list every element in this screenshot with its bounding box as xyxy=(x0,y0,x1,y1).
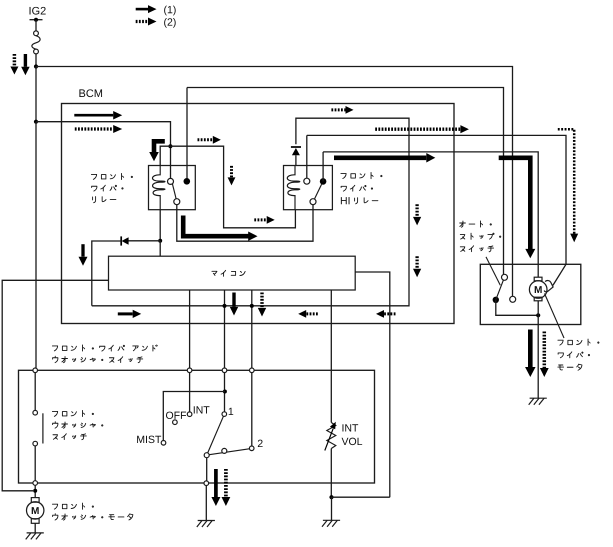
node IG2 label xyxy=(30,7,46,15)
label front wiper HI relay line2 xyxy=(341,185,372,191)
flow arrow solid down at switch ground xyxy=(214,469,218,497)
junction INT VOL ground node xyxy=(329,495,333,499)
flow arrow dashed left below microcomputer 2 xyxy=(384,312,396,315)
ground G3 xyxy=(322,520,340,527)
junction relay K1 feed node xyxy=(168,144,172,148)
wiper motor M letter xyxy=(535,286,542,293)
label front washer switch line1 xyxy=(52,410,93,416)
wire ground node to microcomputer return xyxy=(332,496,390,498)
flow arrow dashed down at switch ground xyxy=(224,469,228,497)
wire MIST branch xyxy=(163,392,225,441)
label INT VOL line2 xyxy=(342,438,363,445)
diode D2 (pointing up) xyxy=(291,146,301,148)
flow arrow thick elbow down into relay K1 xyxy=(154,141,165,152)
label front wiper HI relay line1 xyxy=(341,173,382,179)
relay K2 NO throw contact xyxy=(310,199,316,205)
flow arrow dashed elbow down right side xyxy=(558,129,574,234)
relay K1 box (front wiper relay) xyxy=(149,166,196,210)
BCM box xyxy=(62,104,455,324)
diode D1 (pointing left) xyxy=(122,237,129,245)
wire to ground G3 xyxy=(331,497,333,520)
wire microcomputer pin to switch contact 1 xyxy=(224,290,226,368)
label front washer switch line2 xyxy=(53,422,103,428)
flow arrow dashed right relay K2 coil path xyxy=(254,218,266,221)
auto-stop switch arm xyxy=(496,280,504,300)
auto-stop contact parked xyxy=(510,296,516,302)
relay K1 fixed contact xyxy=(184,178,191,185)
wiper switch arm middle contact xyxy=(222,448,227,453)
INT VOL adjust arrow xyxy=(325,429,333,451)
label auto-stop switch line3 xyxy=(460,246,493,252)
label contact 2 xyxy=(258,440,263,447)
wire INT VOL to ground node xyxy=(330,449,332,498)
junction coil/diode node xyxy=(158,239,162,243)
washer motor M1 xyxy=(31,498,39,503)
wire IG2 down to BCM feed xyxy=(35,67,37,122)
label auto-stop switch line1 xyxy=(460,221,492,227)
wire coil node to diode D1 xyxy=(128,240,160,242)
junction IG2 terminal xyxy=(34,18,38,22)
label front wiper HI relay line3 (kana) xyxy=(355,198,378,204)
flow arrow solid down below microcomputer xyxy=(232,293,235,307)
wire microcomputer pin to INT contact xyxy=(189,290,191,368)
flow arrow (1) solid down at IG2 xyxy=(24,54,27,67)
switch OFF contact xyxy=(173,420,178,425)
terminal contact2 wire xyxy=(250,368,255,373)
flow arrow dashed down right of relay K1 xyxy=(230,166,233,178)
wire washer motor to ground G1 xyxy=(34,523,36,533)
leader line wiper motor label xyxy=(545,294,565,339)
wire junction to coil top xyxy=(160,146,170,165)
wire junction to microcomputer top pin xyxy=(159,241,161,256)
wiper motor box xyxy=(480,264,581,324)
wire relay K1 common to junction xyxy=(170,146,172,178)
label washer switch line2 xyxy=(53,356,143,362)
wire relay K2 common to wiper motor (+2) xyxy=(307,135,566,264)
wire relay K1 throw to relay K2 throw xyxy=(177,205,313,242)
wire IG2 feed into relay R1 junction xyxy=(36,122,171,147)
junction washer motor node xyxy=(33,489,37,493)
relay K1 common contact xyxy=(168,178,174,184)
fuse F1 xyxy=(34,31,39,36)
wire microcomputer pin to switch contact 2 xyxy=(251,290,253,368)
wiper-washer switch box xyxy=(19,370,375,483)
relay K1 coil xyxy=(152,166,165,210)
label front wiper motor line2 xyxy=(558,352,589,358)
wire terminal to INT contact xyxy=(189,373,191,412)
wire auto-stop common to motor return xyxy=(496,300,538,316)
terminal INT wire xyxy=(187,368,192,373)
wire fuse to main junction xyxy=(35,54,37,67)
relay K2 box (front wiper HI relay) xyxy=(284,166,333,210)
wiper switch arm to contact 1 xyxy=(208,416,224,453)
junction IG2 main feed xyxy=(34,64,38,68)
flow arrow solid down BCM left xyxy=(81,244,84,257)
relay K1 NO throw contact xyxy=(174,199,180,205)
wire terminal to contact 2 xyxy=(251,373,253,446)
relay K1 switch arm xyxy=(172,184,176,199)
wire to washer switch contact xyxy=(34,373,36,411)
flow arrow dashed right above relay K1 xyxy=(198,138,213,141)
flow arrow dashed right above relay K2 xyxy=(331,108,345,111)
wire bottom rail to diode D2 via right rail xyxy=(92,118,409,306)
wire to washer motor xyxy=(34,485,36,497)
wire terminal to contact 1 xyxy=(224,373,226,412)
wire relay K2 common up xyxy=(306,135,308,178)
ground G1 xyxy=(26,533,44,540)
flow arrow long dashed right top xyxy=(375,128,460,131)
junction MIST branch xyxy=(223,390,227,394)
wire relay K2 fixed contact up xyxy=(322,152,324,182)
label front wiper motor line1 xyxy=(558,339,599,345)
junction contact1/bottom rail xyxy=(223,304,227,308)
BCM label xyxy=(79,89,102,97)
legend arrow (1) solid xyxy=(136,8,148,11)
wire microcomputer right pin to INT VOL ground node xyxy=(355,272,390,497)
switch INT contact xyxy=(187,412,192,417)
wire pivot to box edge xyxy=(206,458,208,481)
wire microcomputer pin to INT VOL resistor xyxy=(330,290,332,423)
leader line auto-stop switch xyxy=(486,257,500,285)
flow arrow long solid right to motor xyxy=(334,156,426,161)
ground G2 xyxy=(197,521,215,528)
auto-stop common contact xyxy=(493,297,499,303)
terminal washer motor wire xyxy=(33,481,38,486)
wire IG2 to fuse xyxy=(35,20,37,31)
flow arrow dashed right BCM input xyxy=(75,127,113,130)
washer switch upper contact xyxy=(33,410,38,415)
label front wiper relay line2 xyxy=(92,185,123,191)
legend label (1) xyxy=(164,6,176,16)
variable resistor INT VOL xyxy=(327,423,336,449)
switch contact 1 xyxy=(222,412,227,417)
relay K2 switch arm xyxy=(315,184,322,199)
label front wiper relay line1 xyxy=(91,173,132,179)
label OFF xyxy=(166,412,186,419)
wire motor return to ground G4 xyxy=(537,315,539,398)
flow arrow solid right below BCM rail xyxy=(118,312,133,315)
label front wiper relay line3 xyxy=(93,197,116,203)
wire relay K2 fixed to wiper motor (+1) xyxy=(323,152,538,277)
terminal wiper switch ground xyxy=(204,481,209,486)
switch contact 2 xyxy=(249,446,254,451)
auto-stop contact 1 xyxy=(502,274,508,280)
wire diode D2 to relay K2 coil top xyxy=(295,155,297,165)
label front washer switch line3 xyxy=(53,434,86,440)
flow arrow thick elbow solid into wiper motor xyxy=(499,158,531,249)
label front washer motor line1 xyxy=(52,503,93,509)
wiper switch arm to contact 2 xyxy=(209,449,249,455)
junction motor return xyxy=(536,313,540,317)
flow arrow (2) dashed down at IG2 xyxy=(13,54,17,67)
junction IG2 / BCM-relay feed xyxy=(34,120,38,124)
wire motor to return junction xyxy=(537,301,539,316)
flow arrow dashed down outer 2 xyxy=(415,256,418,269)
relay K2 fixed contact xyxy=(320,178,327,185)
wire junction to relay K2 coil bottom xyxy=(170,146,295,228)
wire motor +2 diagonal xyxy=(553,264,566,285)
flow arrow dashed down below microcomputer xyxy=(260,293,263,308)
label MIST xyxy=(137,436,161,443)
microcomputer label xyxy=(212,270,245,276)
wire washer switch to box edge xyxy=(34,446,36,481)
wire IG2 down to wiper-washer switch xyxy=(35,122,37,371)
label contact 1 xyxy=(229,408,234,415)
flow arrow dashed left below microcomputer 1 xyxy=(306,312,318,315)
label front wiper motor line3 xyxy=(558,364,582,370)
legend label (2) xyxy=(164,18,176,28)
terminal contact1 wire xyxy=(222,368,227,373)
legend arrow (2) dashed xyxy=(136,20,148,23)
wire down to relay R1 fixed contact xyxy=(186,88,188,179)
label front washer motor line2 xyxy=(53,514,133,520)
microcomputer U1 box xyxy=(109,256,356,290)
flow arrow dashed down below motor box xyxy=(543,332,547,369)
wire to ground G2 xyxy=(205,486,207,521)
terminal washer switch top xyxy=(33,368,38,373)
washer switch arm xyxy=(42,413,44,443)
ground G4 xyxy=(529,398,547,405)
washer motor M letter xyxy=(32,507,39,514)
node IG2 terminal tick xyxy=(30,19,43,21)
junction contact2/bottom rail xyxy=(250,304,254,308)
relay K2 common contact xyxy=(304,178,310,184)
switch MIST contact xyxy=(161,441,166,446)
wiper switch pivot contact xyxy=(204,453,209,458)
flow arrow thick elbow right below relay K1 xyxy=(183,216,248,237)
label front wiper and switch line1 xyxy=(52,345,157,351)
label INT VOL line1 xyxy=(342,424,358,431)
label auto-stop switch line2 xyxy=(460,233,500,239)
relay K2 coil xyxy=(287,166,300,210)
wire microcomputer left pin to washer motor node xyxy=(2,280,108,491)
flow arrow dashed down outer 1 xyxy=(415,204,418,217)
label INT xyxy=(194,406,210,413)
washer switch lower contact xyxy=(33,441,38,446)
label front wiper HI relay line3 (HI) xyxy=(341,197,350,204)
wire IG2 feed to auto-stop contact 2 xyxy=(36,67,513,297)
wire diode D1 to bottom rail xyxy=(92,241,122,306)
wire relay contact to auto-stop contact 1 xyxy=(187,88,504,275)
wiper motor M2 xyxy=(534,277,542,281)
flow arrow solid right BCM input xyxy=(74,114,113,117)
wire relay K1 coil to microcomputer xyxy=(159,210,161,241)
flow arrow solid down below motor box xyxy=(528,330,533,368)
wiper motor worm drive tab xyxy=(544,281,553,292)
